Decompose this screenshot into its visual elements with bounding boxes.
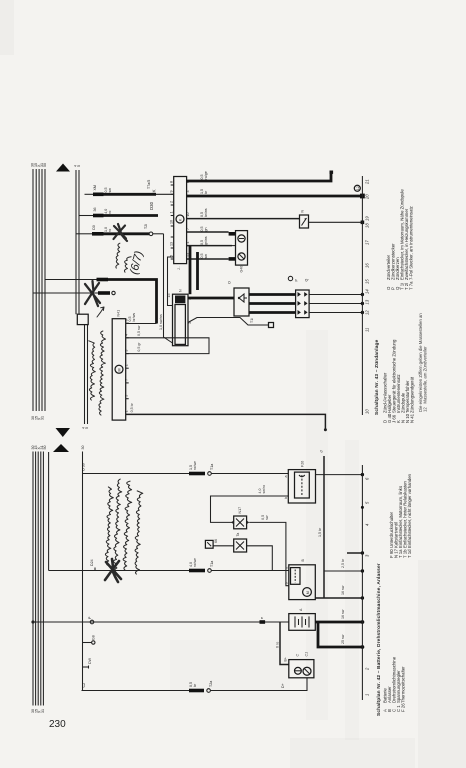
svg-text:T 1d: T 1d [407,549,412,558]
svg-text:4: 4 [125,334,129,336]
svg-text:50: 50 [43,163,47,167]
label P / e [88,616,264,619]
handwritten arrow to cross [97,307,104,317]
svg-text:8: 8 [170,181,174,183]
svg-text:15: 15 [365,279,370,284]
wire coil4 to distributor [188,297,234,300]
svg-text:16 sw: 16 sw [341,585,345,595]
page number 230 [49,719,66,730]
legend header Schaltplan Nr. 43 [374,339,380,415]
rail labels top (bottom diagram) [31,446,47,450]
labels wire D+ [82,681,285,688]
svg-text:D30: D30 [149,201,154,210]
legend header Schaltplan Nr. 42 [376,563,382,716]
svg-text:4: 4 [186,242,190,244]
handwritten cross on wire T2l [114,224,128,241]
svg-text:7: 7 [186,228,190,230]
track numbers 10..21 [365,179,370,414]
crossed-out wire to N41 (track X) [33,291,115,294]
ground mark circled 12 [354,185,360,191]
wire labels right of K [200,171,208,258]
instrument cluster K [174,177,187,271]
svg-text:J..: J.. [177,266,181,270]
svg-text:ro: ro [108,229,112,232]
wire coil terminal1 branch [188,318,274,328]
svg-text:230: 230 [49,719,66,730]
svg-text:17: 17 [365,240,370,245]
svg-text:16 sw: 16 sw [341,609,345,619]
svg-text:Einfachstecker, nicht länger v: Einfachstecker, nicht länger vorhanden [407,473,412,548]
svg-text:F 26: F 26 [401,703,406,712]
svg-text:C: C [296,654,300,657]
track numbers 1..6 [365,477,370,696]
svg-text:Ta: Ta [236,533,240,537]
legend 42 right column [389,473,412,558]
svg-text:9: 9 [170,191,174,193]
feeder pair labels [74,165,90,429]
ignition leads distributor to plugs [249,295,296,313]
svg-text:T 7a: T 7a [409,281,414,290]
wire D30 [79,215,158,217]
N41 pin1 long wire to track10 [126,402,327,431]
svg-text:1: 1 [365,694,370,696]
inline connector box on trunk [77,314,88,324]
svg-text:D+: D+ [281,683,285,688]
feeder pair wires [76,170,79,314]
svg-text:T2a: T2a [209,681,213,687]
rail terminal labels top [31,163,48,167]
svg-text:21: 21 [365,179,370,185]
feed stub DW [83,657,93,668]
svg-text:2: 2 [125,364,129,366]
ignition distributor O [228,281,250,316]
earth/track rail (bottom diagram) [361,465,363,700]
svg-text:N 41: N 41 [410,413,415,423]
svg-text:Q: Q [305,279,309,282]
N41 pin numbers [125,319,129,412]
svg-text:br/ws: br/ws [204,208,208,217]
labels wire D30 [93,201,154,213]
svg-text:M: M [118,369,122,372]
svg-text:br/ws: br/ws [132,313,136,322]
feed wire to N41 pin6 [45,280,157,324]
page-continuation arrow (bottom, points down) [56,428,71,437]
svg-text:20: 20 [365,194,370,200]
svg-text:DW: DW [88,657,92,664]
track stub (track 3) [347,551,364,554]
long wire battery positive (track 2) [31,620,288,624]
svg-text:gn: gn [204,228,208,232]
svg-text:ro/sw: ro/sw [193,558,197,567]
svg-text:N: N [301,210,305,213]
svg-text:12: 12 [356,186,360,190]
wire to warm-up switch F26 (track 5/6) [83,472,365,477]
svg-text:T2l: T2l [144,224,148,229]
svg-text:50: 50 [43,446,47,450]
crossed-out starter control wire (terminal 50) [49,568,289,573]
svg-text:12 Massestelle, am Zündverte: 12 Massestelle, am Zündverteiler [423,346,428,412]
handwriting block Wegfahrsperre relay note [105,479,142,574]
svg-text:36: 36 [93,208,97,212]
hall sender connector bars [229,234,236,259]
svg-text:b: b [284,582,288,584]
wire suppressor to rail track19 [309,221,365,225]
N41 right pin ticks [126,323,129,399]
svg-text:31: 31 [41,416,45,420]
rail terminal labels bottom [31,416,45,420]
svg-text:2: 2 [170,201,174,203]
svg-text:C1: C1 [305,652,309,657]
K pin feed to coil terminal 15 [168,257,174,306]
ignition coil N [167,289,192,346]
svg-text:gr/ws: gr/ws [204,236,208,245]
feed stub with connector G8 [83,635,96,644]
svg-text:b: b [284,497,288,499]
svg-text:13: 13 [365,299,370,304]
labels crossed wire [90,558,214,567]
battery cable to rail track1 [318,622,364,649]
wire track20 to terminal K [85,193,174,195]
labels wire T2l [92,224,148,232]
wires K to hall sender connector [187,232,232,259]
svg-text:2,5 br: 2,5 br [341,558,345,568]
svg-text:C2: C2 [82,683,86,688]
wire T2l (crossed out) [76,232,164,236]
svg-text:a: a [284,476,288,478]
svg-text:ro/ge: ro/ge [204,171,208,179]
svg-text:10: 10 [170,220,174,224]
svg-text:7-Pol Stecker, am Instrumenten: 7-Pol Stecker, am Instrumenteneinsatz [409,206,414,280]
svg-text:25 sw: 25 sw [341,634,345,644]
hall sender G40 box [236,231,248,273]
svg-text:N: N [179,289,183,292]
handwritten annotation (6/7) [128,250,145,276]
generator B+ feed wire [276,622,289,665]
svg-text:1: 1 [170,212,174,214]
spark plug connectors P/Q block [288,276,309,317]
legend 43 right column [386,189,414,290]
svg-text:T1a: T1a [210,464,214,470]
wire K to track21 stub [187,171,334,182]
svg-text:66: 66 [214,539,218,543]
branch trunk wires down [85,325,88,424]
connector T-box [234,533,247,552]
svg-text:M: M [306,591,310,594]
starter ground wire to rail track3 [324,558,364,573]
svg-text:1: 1 [125,410,129,412]
wire K to suppressor N [187,218,300,220]
svg-text:14: 14 [365,289,370,294]
svg-text:G8: G8 [92,635,96,640]
svg-text:XM: XM [93,185,97,190]
plug leads to earth rail [309,293,364,314]
wire labels 0,5 sw / K / T7a [93,180,157,193]
T-box output joining starter wire [247,546,273,571]
svg-text:0,5 gr: 0,5 gr [137,342,141,352]
svg-text:T1a: T1a [210,561,214,567]
handwritten cross on track X wire [85,281,100,306]
svg-text:O 30: O 30 [82,463,86,471]
svg-text:F26: F26 [301,461,305,467]
thick feeds from K down to coil area [190,246,198,294]
battery positive cable to rail track2 [315,609,364,624]
svg-text:T7a/5: T7a/5 [147,180,151,189]
earth/track rail (top diagram) [361,176,363,415]
svg-text:D24: D24 [90,559,94,566]
svg-text:Schaltplan Nr. 42 – Batterie,: Schaltplan Nr. 42 – Batterie, Drehstroml… [376,563,382,716]
supply rails 30/15/X/31 (top diagram) [33,169,45,411]
svg-text:6 ro: 6 ro [276,642,280,648]
svg-text:G40: G40 [240,266,244,273]
svg-text:3: 3 [186,191,190,193]
label 0,5 br/ws [128,313,136,322]
handwritten note hier abgetrennt fuer Wegfahrsperre [89,331,106,415]
output stage N41 [112,310,126,420]
svg-text:11: 11 [365,328,370,332]
handwritten note w/annotation [116,243,131,272]
svg-text:13: 13 [170,242,174,246]
svg-text:ro: ro [108,211,112,214]
svg-text:1,0 sw/ws: 1,0 sw/ws [159,314,163,330]
supply rails (bottom diagram) [33,452,43,706]
svg-text:e: e [260,617,264,619]
svg-text:sw: sw [265,515,269,520]
svg-text:5: 5 [77,165,81,167]
svg-text:5: 5 [125,395,129,397]
svg-text:Zündungsendgerät: Zündungsendgerät [410,376,415,413]
suppressor box N on track19 [300,210,309,229]
warm-up switch F26 [284,461,316,503]
svg-text:16: 16 [365,263,370,268]
svg-text:12: 12 [365,310,370,315]
branch wire X down to starter feed [48,452,50,571]
svg-text:T1i: T1i [250,318,254,323]
handwritten cross on starter wire [105,559,121,582]
svg-text:5: 5 [85,427,89,429]
main feed wire 30 [82,452,83,691]
svg-text:a: a [284,567,288,569]
N17 output to starter terminal [249,515,289,586]
N41 pin4/pin3 loop to coil [126,325,209,353]
rail junction (N17 track) [361,506,364,509]
cold start valve N17 [231,507,249,529]
svg-text:10: 10 [186,213,190,217]
svg-text:Thermozeitschalter: Thermozeitschalter [401,666,406,703]
svg-text:7: 7 [125,379,129,381]
svg-text:0,5 br: 0,5 br [130,402,134,412]
svg-text:30: 30 [81,446,85,450]
svg-text:ro/sw: ro/sw [193,461,197,470]
svg-text:3: 3 [125,350,129,352]
svg-text:18: 18 [365,223,370,228]
svg-text:B+: B+ [284,657,288,662]
rail labels bottom end [31,709,45,713]
svg-text:N17: N17 [238,507,242,514]
battery A [289,608,316,630]
labels wire F26 [82,461,215,471]
svg-text:10: 10 [365,409,370,414]
svg-text:sw: sw [204,254,208,259]
long wire track20 to earth rail [187,194,365,199]
svg-text:sw: sw [108,188,112,193]
legend 43 left column [383,339,415,423]
K left pin ticks [171,185,174,259]
page-continuation arrow (top) [56,164,70,172]
wire D+ from feed to generator [82,678,308,693]
svg-text:0,5 sw: 0,5 sw [137,325,141,336]
ground lead 1,5 br with terminal d [318,450,324,599]
svg-text:D0: D0 [92,225,96,230]
alternator C with regulator C1 [289,652,314,678]
T-box left connector square [205,539,233,548]
legend 42 left column [383,656,406,712]
K pin numbers [170,181,190,257]
svg-text:Schaltplan Nr. 43 – Zündanlage: Schaltplan Nr. 43 – Zündanlage [374,339,380,415]
svg-text:sw/ro: sw/ro [262,485,266,494]
starter main terminal wire to rail [315,585,364,599]
svg-text:N41: N41 [117,310,121,317]
svg-text:1,5 br: 1,5 br [318,527,322,537]
legend 43 footnote [418,313,428,412]
svg-text:31: 31 [41,709,45,713]
warm up valve circuit loop F26 to N17 [211,485,289,522]
page-continuation arrow (bottom diagram top) [53,444,69,452]
vertical wire 1,0 sw/ws down to coil [159,234,173,343]
svg-text:19: 19 [365,216,370,221]
feed top label [81,446,85,450]
svg-text:O: O [228,281,232,284]
starter B [284,559,315,600]
